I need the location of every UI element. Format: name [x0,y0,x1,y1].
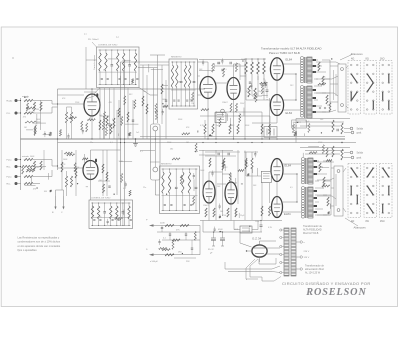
svg-text:1M: 1M [99,115,102,117]
svg-text:1M: 1M [36,109,39,111]
svg-text:220K: 220K [75,102,80,104]
svg-text:32+32: 32+32 [208,249,215,251]
svg-text:1M: 1M [99,180,102,182]
svg-text:Rec.: Rec. [7,167,12,169]
svg-text:100K: 100K [119,161,124,163]
svg-text:470: 470 [33,188,36,190]
svg-text:REGISTRO: REGISTRO [161,164,172,166]
svg-text:500K: 500K [30,156,35,158]
svg-text:0,1: 0,1 [123,188,126,190]
svg-text:REGISTRO: REGISTRO [171,57,182,59]
svg-text:0,5: 0,5 [224,69,227,71]
svg-text:8K2: 8K2 [231,125,234,127]
svg-text:22n: 22n [322,76,325,78]
svg-text:G.Z.34: G.Z.34 [252,237,262,241]
svg-text:330K: 330K [178,119,183,121]
svg-text:P.U.: P.U. [7,113,11,115]
svg-text:100K: 100K [200,170,205,172]
svg-text:EL84: EL84 [286,111,293,115]
svg-text:470: 470 [23,117,26,119]
svg-text:330K: 330K [245,125,250,127]
svg-text:1M: 1M [191,103,194,105]
svg-text:84-B: 84-B [293,125,298,127]
svg-text:12AX7: 12AX7 [203,204,209,207]
svg-text:250V: 250V [255,221,260,223]
svg-text:8K2: 8K2 [129,94,132,96]
svg-text:grab.: grab. [357,132,363,135]
svg-text:CONTROL DE TONO: CONTROL DE TONO [98,45,118,47]
svg-text:470K: 470K [246,91,251,93]
svg-text:entrada: entrada [22,155,30,158]
svg-text:Mod ULT 84-B: Mod ULT 84-B [303,232,319,235]
svg-text:Para un TUBO ULT 84-B: Para un TUBO ULT 84-B [269,51,300,55]
svg-text:2K2: 2K2 [224,167,227,169]
svg-text:entrada: entrada [22,95,30,98]
svg-text:condensadores son de ± 10%: condensadores son de ± 10% dichos [18,240,61,244]
svg-text:8Ω: 8Ω [366,58,369,61]
svg-text:CONTROL DE TONO: CONTROL DE TONO [91,198,111,200]
svg-text:8Ω: 8Ω [366,220,369,223]
svg-text:220K: 220K [75,167,80,169]
svg-text:0,5: 0,5 [290,187,293,189]
svg-text:Transformador-modelo ULT 84: Transformador-modelo ULT 84 ALTA FIDELID… [261,47,321,51]
svg-text:Fono: Fono [7,177,13,179]
svg-text:16Ω: 16Ω [380,220,385,223]
svg-text:ROSELSON: ROSELSON [305,287,366,298]
svg-text:250K: 250K [30,112,35,114]
svg-text:CIRCUITO DISEÑADO Y ENSAYADO P: CIRCUITO DISEÑADO Y ENSAYADO POR [282,281,371,286]
svg-text:22n: 22n [143,91,146,93]
svg-text:450V: 450V [218,229,223,231]
svg-text:Las Resistencias no especif: Las Resistencias no especificadas y [18,236,60,240]
svg-text:470K: 470K [222,215,227,217]
svg-text:0,1: 0,1 [103,70,106,72]
svg-text:2K2: 2K2 [170,149,173,151]
svg-text:125 V: 125 V [304,257,310,259]
svg-text:en los aparatos donde van: en los aparatos donde van montados [18,244,61,248]
svg-text:Altavoces: Altavoces [354,226,367,230]
svg-text:AL 124 125 W: AL 124 125 W [305,271,321,274]
svg-text:100K: 100K [234,229,239,231]
svg-text:Fono: Fono [7,160,13,162]
svg-text:o 560 pF: o 560 pF [150,261,159,263]
svg-text:Control volumen: Control volumen [93,54,96,70]
svg-text:EL84: EL84 [284,212,291,216]
svg-text:P.U. 500mV: P.U. 500mV [88,39,99,41]
svg-text:2K2: 2K2 [290,85,293,87]
svg-text:470: 470 [234,182,237,184]
svg-text:470K: 470K [318,142,323,144]
svg-text:Salida: Salida [357,153,364,155]
svg-text:EL84: EL84 [285,164,292,168]
svg-text:EL84: EL84 [286,58,293,62]
svg-text:Altavoces: Altavoces [351,52,364,56]
svg-text:220 V: 220 V [304,251,310,253]
svg-text:grab.: grab. [357,157,363,160]
svg-text:12AX7: 12AX7 [222,101,228,104]
svg-text:16Ω: 16Ω [380,58,385,61]
svg-text:1n5: 1n5 [136,132,139,134]
svg-text:22n: 22n [143,187,146,189]
svg-text:1M: 1M [24,127,27,129]
svg-text:0,1: 0,1 [140,151,143,153]
svg-text:Salida: Salida [357,129,364,131]
svg-text:220K: 220K [160,223,165,225]
svg-text:470: 470 [109,102,112,104]
svg-text:100K: 100K [63,159,68,161]
svg-text:2K2: 2K2 [217,63,220,65]
svg-text:4Ω: 4Ω [351,58,354,61]
svg-text:Rec.: Rec. [7,184,12,186]
svg-text:250V: 250V [240,103,245,105]
svg-text:fijos o ajustables: fijos o ajustables [18,248,38,252]
svg-text:Radio: Radio [7,101,13,103]
svg-text:4Ω: 4Ω [351,220,354,223]
